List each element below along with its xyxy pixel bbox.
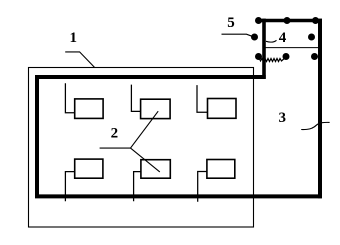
svg-text:3: 3 <box>279 110 287 126</box>
svg-text:1: 1 <box>69 30 77 46</box>
svg-text:5: 5 <box>227 15 235 31</box>
svg-text:4: 4 <box>279 30 287 46</box>
svg-text:2: 2 <box>111 126 119 142</box>
